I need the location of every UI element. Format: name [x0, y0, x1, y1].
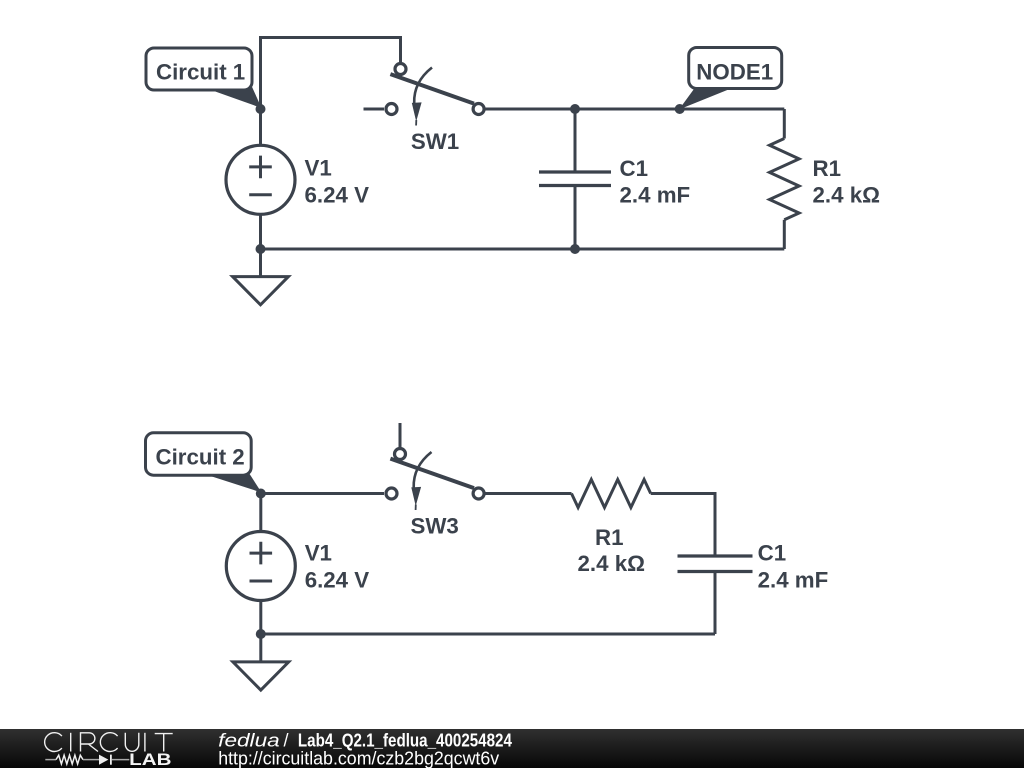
- svg-text:R1: R1: [813, 156, 842, 181]
- wire: bottom rail circuit 1: [261, 248, 785, 251]
- resistor R1 (circuit 1, vertical): [770, 109, 800, 249]
- svg-text:V1: V1: [305, 156, 332, 181]
- svg-text:SW1: SW1: [411, 129, 459, 154]
- node dot at C1 top: [570, 104, 580, 114]
- wire: V1 top bypass to switch SW1 top throw: [261, 38, 401, 110]
- node dot NODE1: [675, 104, 685, 114]
- ground (circuit 2): [233, 634, 289, 690]
- label V1 value (circuit 1): [305, 156, 370, 208]
- node dot A (V1 + node): [256, 104, 266, 114]
- callout Circuit 1: [146, 48, 262, 108]
- svg-text:SW3: SW3: [411, 513, 459, 538]
- svg-text:6.24 V: 6.24 V: [305, 183, 370, 208]
- label R1 value (circuit 1): [813, 156, 880, 207]
- svg-text:C1: C1: [758, 540, 787, 565]
- wire: V1 positive lead up to node B: [259, 494, 262, 532]
- svg-text:2.4 mF: 2.4 mF: [758, 567, 829, 592]
- footer bar: [0, 729, 1024, 768]
- voltage source V1 (circuit 2): [226, 532, 295, 601]
- callout NODE1: [679, 48, 782, 110]
- callout Circuit 2: [146, 433, 262, 493]
- CircuitLab logo resistor-diode line and LAB: [45, 751, 171, 768]
- wire: resistor to capacitor C1 top: [651, 494, 715, 557]
- label C1 value (circuit 1): [620, 156, 691, 208]
- label R1 value (circuit 2): [578, 525, 645, 576]
- node dot at bottom rail / ground: [256, 244, 266, 254]
- label SW3: [411, 513, 459, 538]
- resistor R1 (circuit 2, horizontal): [572, 480, 651, 508]
- node dot at bottom rail circuit 2: [256, 629, 266, 639]
- wire: V1 positive lead up to node A: [259, 109, 262, 146]
- node dot B (V1 + node, circuit 2): [256, 489, 266, 499]
- svg-text:6.24 V: 6.24 V: [305, 568, 370, 593]
- wire: bottom rail circuit 2: [261, 633, 715, 636]
- label C1 value (circuit 2): [758, 540, 829, 592]
- svg-text:V1: V1: [305, 541, 332, 566]
- capacitor C1 (circuit 1): [539, 109, 611, 249]
- CircuitLab logo wordmark CIRCUIT: [45, 733, 173, 752]
- wire: V1 negative lead down to ground node: [259, 214, 262, 249]
- switch SW3: [386, 423, 484, 510]
- wire: switch common to resistor R1: [485, 492, 571, 495]
- wire: node B to switch SW3 left throw: [261, 492, 384, 495]
- footer title text: [218, 731, 512, 768]
- svg-text:2.4 kΩ: 2.4 kΩ: [578, 551, 645, 576]
- voltage source V1 (circuit 1): [226, 145, 295, 214]
- label V1 value (circuit 2): [305, 541, 370, 593]
- svg-text:LAB: LAB: [129, 751, 171, 768]
- svg-text:2.4 kΩ: 2.4 kΩ: [813, 182, 880, 207]
- svg-text:NODE1: NODE1: [696, 60, 773, 85]
- label SW1: [411, 129, 459, 154]
- wire: V1 negative lead down to bottom rail: [259, 601, 262, 635]
- switch SW1: [364, 64, 485, 126]
- svg-text:R1: R1: [595, 525, 624, 550]
- svg-text:http://circuitlab.com/czb2bg2q: http://circuitlab.com/czb2bg2qcwt6v: [218, 748, 499, 768]
- wire: switch common to top rail: [486, 108, 785, 111]
- svg-text:C1: C1: [620, 156, 649, 181]
- svg-text:Circuit 1: Circuit 1: [156, 59, 245, 84]
- capacitor C1 (circuit 2): [678, 556, 753, 634]
- node dot at C1 bottom: [570, 244, 580, 254]
- ground (circuit 1): [233, 249, 289, 305]
- svg-text:Circuit 2: Circuit 2: [156, 445, 245, 470]
- svg-text:2.4 mF: 2.4 mF: [620, 183, 691, 208]
